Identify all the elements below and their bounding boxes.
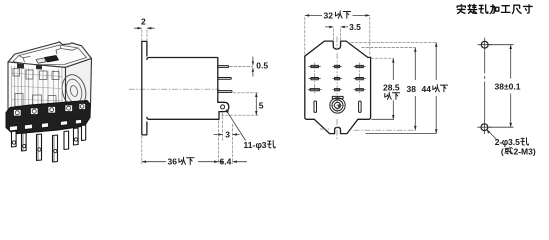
- svg-text:3: 3: [225, 129, 230, 139]
- pin 2: [218, 78, 232, 80]
- cover right face: [66, 59, 92, 114]
- dimension 38: [407, 48, 417, 131]
- flange (mounting plate): [142, 41, 147, 134]
- centerline: [129, 88, 220, 90]
- svg-text:3.5: 3.5: [349, 22, 361, 32]
- dimension 2 (flange thickness): [134, 17, 154, 41]
- relay body outline: [147, 58, 219, 120]
- cover front-left face: [8, 62, 66, 118]
- bottom center slot: [332, 96, 343, 98]
- svg-text:11-: 11-: [244, 140, 256, 150]
- pin slots row 1: [310, 65, 363, 112]
- leader 2-phi3.5 holes: [487, 129, 536, 156]
- svg-text:38: 38: [407, 84, 417, 94]
- pin slots row 2: [311, 78, 318, 80]
- svg-text:6.4: 6.4: [220, 157, 232, 167]
- svg-text:32: 32: [324, 10, 334, 20]
- top hole: [478, 38, 492, 52]
- cover top face: [8, 42, 92, 68]
- dimension 32以下: [305, 10, 370, 55]
- dark base slab: [6, 101, 91, 135]
- dimension 3.5 (top notch): [325, 22, 361, 40]
- dimension 0.5 (pin thickness): [230, 57, 269, 77]
- pin slots row 3: [310, 89, 319, 91]
- svg-text:2: 2: [141, 17, 146, 27]
- dimension 44以下: [422, 42, 448, 133]
- pins: [12, 125, 86, 162]
- svg-text:(: (: [501, 147, 504, 157]
- vertical side slots: [314, 101, 317, 112]
- mounting tab with hole: [218, 102, 229, 111]
- top rim inner ledge: [13, 45, 87, 65]
- pin 1: [218, 66, 229, 68]
- bottom hole: [477, 120, 491, 134]
- svg-text:38±0.1: 38±0.1: [495, 81, 521, 91]
- svg-text:0.5: 0.5: [256, 61, 268, 71]
- internal mechanism left: [12, 66, 63, 115]
- column centerlines: [315, 53, 360, 112]
- dimension 3 (hole offset): [214, 112, 240, 164]
- center circle (armature): [329, 98, 346, 113]
- pin 3: [218, 91, 232, 93]
- svg-text:36: 36: [168, 157, 178, 167]
- title 安装孔加工尺寸: [457, 4, 532, 13]
- leader 11-phi3 hole: [226, 109, 276, 150]
- coil (seen through cover right): [59, 72, 89, 110]
- svg-text:2-M3): 2-M3): [514, 147, 536, 157]
- dimension 38±0.1: [489, 45, 521, 128]
- bottom profile with center notch: [314, 119, 358, 133]
- base lower step highlights: [10, 119, 82, 131]
- svg-text:28.5: 28.5: [383, 83, 400, 93]
- dark latch block on top: [45, 56, 59, 63]
- slot crossbars: [308, 67, 366, 90]
- svg-text:44: 44: [422, 84, 432, 94]
- base socket cutouts: [14, 104, 86, 117]
- right-side extension lines: [347, 42, 437, 58]
- dimension 5 (pin pitch): [221, 93, 264, 115]
- hole centerline vertical: [484, 52, 486, 121]
- dimension 28.5以下: [383, 58, 400, 119]
- dimension 36以下 and 6.4: [142, 121, 247, 167]
- svg-text:5: 5: [259, 101, 264, 111]
- svg-text:3: 3: [262, 140, 267, 150]
- center vertical line: [336, 37, 338, 140]
- rear body outline: [305, 41, 371, 57]
- tab hole phi3: [221, 105, 225, 109]
